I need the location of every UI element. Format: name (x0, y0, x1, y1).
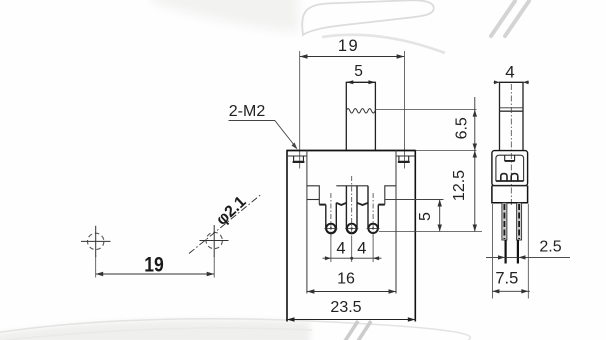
dim 4-4 ext lines (331, 234, 373, 262)
dim 23.5 line (body bottom) (286, 319, 416, 321)
dim 5 shaft arrows (outside) (346, 80, 353, 84)
dim 16 line (307, 291, 396, 293)
side slot (505, 155, 515, 160)
svg-text:5: 5 (354, 63, 363, 80)
center boss top (336, 185, 368, 187)
watermark top hook (302, 0, 445, 53)
dim 7.5 ext lines (491, 204, 493, 299)
watermark bottom swoosh (0, 319, 470, 340)
side body inner outline (496, 155, 524, 181)
pin P3 eyelet (368, 224, 377, 233)
side centerline (510, 84, 512, 205)
hole H2 circle (206, 232, 222, 248)
inner wall right / 16 ext (395, 151, 397, 294)
svg-text:12.5: 12.5 (451, 170, 468, 201)
shaft break zigzag (346, 109, 375, 113)
svg-text:19: 19 (144, 253, 164, 276)
dim 5 right line (439, 200, 441, 232)
side body outline (492, 151, 528, 186)
pin P2 eyelet (347, 224, 356, 233)
notch V right (thick) (357, 203, 368, 205)
right ear slot (399, 156, 409, 161)
pin P1 outline (326, 203, 337, 234)
dim 2.5 line (486, 256, 570, 258)
dim 19 top line (300, 56, 405, 58)
svg-text:4: 4 (505, 63, 514, 82)
side pin B (517, 203, 522, 264)
svg-text:4: 4 (336, 240, 345, 258)
svg-text:7.5: 7.5 (495, 270, 518, 288)
pin P2 outline (346, 186, 357, 234)
svg-text:6.5: 6.5 (454, 117, 471, 139)
left ear line (287, 155, 307, 157)
dim 4 arrows (494, 81, 500, 83)
side collar (492, 186, 528, 203)
body top edge (287, 150, 415, 152)
dim 19 top extension line left (299, 51, 301, 169)
watermark top-right slashes (491, 1, 529, 36)
ext of body top to right (415, 150, 476, 152)
side base line (thick) (496, 180, 524, 182)
hole H1 circle (88, 233, 104, 249)
pin centerline P3 (372, 193, 374, 237)
ext line (5 dim right) from step (385, 199, 444, 201)
side shaft (500, 82, 524, 150)
dim 7.5 line (492, 290, 529, 292)
svg-text:19: 19 (338, 37, 359, 55)
pin P3 outline (368, 186, 378, 233)
hole H1 centerlines (81, 226, 111, 257)
svg-text:2-M2: 2-M2 (229, 103, 266, 120)
inner wall left / 16 ext (306, 151, 308, 294)
right floor stub (thick) (378, 204, 385, 206)
phi 2.1 leader (dash-dot) (189, 195, 261, 254)
dim 4-4 line (323, 257, 382, 259)
side shaft break lines (500, 107, 524, 109)
dim 19 top extension line right (403, 51, 405, 169)
left step block (307, 186, 319, 205)
notch V left (thick) (336, 203, 346, 205)
side contact bumps (501, 174, 507, 181)
dimension 19 (hole pitch) extension lines (96, 255, 215, 278)
left ear slot (294, 156, 304, 161)
dimension 19 (hole pitch) line (96, 273, 215, 275)
svg-text:2.5: 2.5 (539, 239, 561, 256)
ext line from shaft to 6.5 dim (375, 109, 476, 111)
watermark bottom slashes (345, 321, 371, 340)
right step block (385, 186, 396, 205)
actuator shaft outline (346, 82, 375, 150)
pin P1 eyelet (326, 224, 335, 233)
pin centerline P2 (long) (351, 176, 353, 237)
left floor stub (thick) (319, 204, 326, 206)
svg-text:5: 5 (417, 212, 434, 221)
svg-text:4: 4 (357, 240, 366, 258)
2-M2 leader (229, 121, 297, 149)
svg-text:16: 16 (337, 270, 355, 287)
pin centerline P1 (330, 193, 332, 237)
watermark faint wedge top-left (152, 0, 298, 32)
svg-text:φ2.1: φ2.1 (213, 193, 249, 228)
ext line shared (12.5 + 5 bottom) (379, 231, 482, 233)
hole H2 centerlines (200, 225, 229, 257)
side section line (492, 185, 528, 187)
body outline (287, 151, 415, 322)
dim 6.5/12.5 line (474, 97, 476, 232)
right ear line (396, 155, 415, 157)
svg-text:23.5: 23.5 (330, 299, 361, 316)
side pin A (502, 203, 507, 264)
